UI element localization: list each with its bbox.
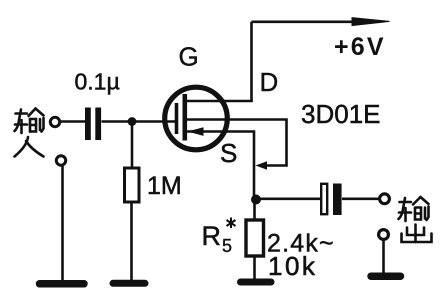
输 output: right part body [415,208,421,220]
svg-text:3D01E: 3D01E [301,99,381,129]
svg-text:5: 5 [222,236,232,256]
wire: node to output capacitor C2 [260,198,321,201]
wire: 1M resistor bottom to ground [130,202,133,281]
svg-text:10k: 10k [268,251,317,281]
output terminal lower [379,230,389,240]
ground (R5) [241,279,272,286]
output terminal upper [380,194,390,204]
wire: source lead down to node [187,132,254,197]
wire: R5 top [253,203,256,220]
wire: capacitor C2 to output terminal [342,198,380,201]
svg-text:S: S [220,138,237,168]
svg-text:G: G [179,42,199,72]
resistor R5 body [246,220,264,256]
svg-text:1M: 1M [147,172,182,200]
supply arrowhead +6V [352,18,390,26]
substrate junction arrow [256,161,268,170]
wire: drain riser [250,22,253,101]
transistor source arrow [188,127,204,136]
label shu-ru (input) hand-drawn CJK [15,109,44,157]
svg-text:D: D [260,67,279,97]
ground (1M) [113,280,145,287]
输 output: right part roof [413,197,421,205]
wire: input lower terminal to ground [61,166,64,282]
wire: output lower terminal to ground [382,240,385,275]
transistor U1 3D01E circle [165,87,228,150]
wire: 1M resistor top [131,124,134,168]
wire: R5 bottom to ground [253,256,256,280]
node: source output junction dot [251,195,261,205]
capacitor C2 plate right (solid) [333,184,342,216]
capacitor C1 plate left [85,108,91,141]
input terminal upper [50,117,59,126]
node: gate junction dot [128,117,137,126]
ground (input) [40,280,85,288]
输 input: right part roof [29,109,36,117]
输 output: left radical [400,201,412,204]
入 [15,137,29,157]
transistor gate bar [175,103,179,134]
resistor R1 1M body [125,168,140,202]
ground (output) [371,272,401,280]
wire: input terminal to capacitor C1 [59,120,85,123]
capacitor C1 plate right [95,108,101,141]
wire: +6V top rail [252,20,356,23]
transistor channel bar [183,94,188,141]
input terminal lower [56,156,65,165]
wire: substrate loop right [187,120,287,166]
wire: capacitor C1 to gate [102,120,178,123]
wire: drain horizontal to transistor [186,100,253,103]
label shu-chu (output) hand-drawn CJK [399,197,432,242]
svg-text:+6V: +6V [334,33,386,61]
出 [414,225,417,243]
label star [227,218,236,229]
输 input: right part body [29,119,32,132]
svg-text:0.1µ: 0.1µ [75,69,120,95]
svg-text:R: R [202,221,222,251]
输 input: left radical [16,112,28,115]
capacitor C2 plate left (hollow) [321,184,327,214]
